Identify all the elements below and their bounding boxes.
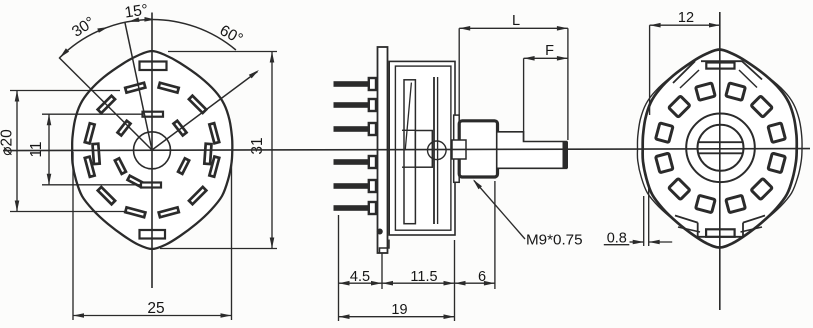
left view: front body outline xyxy=(72,51,232,249)
middle view: shaft end cap xyxy=(563,142,569,169)
middle view: shaft circle xyxy=(428,141,447,160)
right view: ring of 12 contact holes xyxy=(726,83,746,100)
right view: cover body outline xyxy=(643,50,797,248)
middle view: rotor plate xyxy=(433,77,435,224)
right view: shaft circle xyxy=(698,125,744,171)
left view: middle vertical slots xyxy=(204,144,211,164)
dim row 4.5 / 11.5 / 6 xyxy=(339,282,495,284)
bottom dims extension lines xyxy=(338,215,340,321)
left view: inner slot 0 deg / dim 11 tick top xyxy=(143,112,164,117)
middle view: stator strip xyxy=(404,80,415,224)
dim 31: extension lines xyxy=(168,51,277,53)
middle view: shaft with flat xyxy=(498,132,567,169)
dim 12: dimension line with arrows xyxy=(650,24,720,26)
dim L: extension lines xyxy=(458,28,460,115)
right view: rear wafer silhouette xyxy=(637,53,802,245)
middle view: housing box double wall xyxy=(389,61,455,235)
dim F: dimension line with arrows xyxy=(524,57,568,59)
right view: vertical centerline xyxy=(719,12,721,310)
left view: vertical centerline xyxy=(151,13,153,289)
dim 12: extension line xyxy=(649,25,651,115)
middle view: wiper arm diagonal xyxy=(405,83,411,151)
svg-text:4.5: 4.5 xyxy=(350,269,370,285)
right view: screwdriver slot xyxy=(698,141,743,143)
right view: rotor boss circle xyxy=(686,114,755,183)
leader M9*0.75 xyxy=(474,181,525,240)
arc arrowheads xyxy=(60,48,69,57)
left view: center shaft hole circle xyxy=(134,132,171,169)
left view: 45 deg construction line xyxy=(59,58,152,151)
dim 11: extension lines xyxy=(42,113,142,115)
left view: top mounting tab slot xyxy=(140,62,167,71)
dim 0.8: extension lines xyxy=(643,196,645,246)
dim phi20: extension lines xyxy=(10,90,120,92)
svg-text:⌀20: ⌀20 xyxy=(0,129,16,156)
dim 25: dimension line with arrows xyxy=(73,315,232,317)
dim 25: extension lines xyxy=(72,152,74,320)
dim 0.8: dimension line with arrows xyxy=(630,241,644,243)
middle view: rotor contact arms xyxy=(402,129,415,131)
dim L: dimension line with arrows xyxy=(459,27,568,29)
left view: 15 deg construction line xyxy=(125,22,152,150)
svg-text:15°: 15° xyxy=(124,1,150,21)
dim 11: dimension line with arrows xyxy=(48,114,50,185)
middle view: wafer plate xyxy=(378,47,388,253)
dim 19 xyxy=(339,316,455,318)
middle view: threaded bushing M9 xyxy=(459,121,497,177)
right view: top tab xyxy=(701,60,743,62)
dim 31: dimension line with arrows xyxy=(271,52,273,249)
svg-text:11.5: 11.5 xyxy=(410,269,437,285)
middle view: rotor hub xyxy=(415,131,432,168)
middle view: mounting flange xyxy=(454,115,460,182)
svg-text:25: 25 xyxy=(147,300,164,317)
middle view: wafer bottom step xyxy=(380,240,390,254)
horizontal centerline (common axis) xyxy=(3,149,810,151)
svg-text:12: 12 xyxy=(678,10,694,26)
left view: outer ring of slots xyxy=(159,83,179,93)
left view: 60 deg radius line with arrow xyxy=(152,72,258,151)
svg-text:31: 31 xyxy=(249,137,266,154)
left view: inner slot 180 deg / dim 11 tick bottom xyxy=(141,183,161,188)
dim phi20: dimension line with arrows xyxy=(16,91,18,212)
middle view: wafer rivet xyxy=(377,229,383,235)
left view: bottom mounting tab slot xyxy=(140,230,166,239)
svg-text:M9*0.75: M9*0.75 xyxy=(526,232,583,249)
right view: bottom tab xyxy=(698,236,743,238)
svg-text:F: F xyxy=(545,43,554,59)
svg-text:6: 6 xyxy=(478,269,486,285)
middle view: solder pins xyxy=(334,81,370,87)
left view: angle dimension arc xyxy=(60,19,236,57)
svg-text:L: L xyxy=(512,13,520,29)
svg-text:11: 11 xyxy=(28,141,45,157)
svg-text:19: 19 xyxy=(391,302,407,318)
left view: inner ring of slots xyxy=(173,121,186,136)
dim F: extension line xyxy=(523,58,525,141)
middle view: collar boss xyxy=(452,140,466,159)
